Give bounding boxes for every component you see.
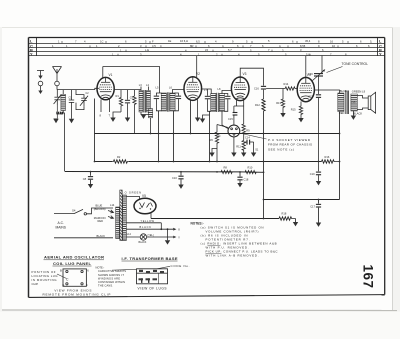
- ground below R11: [241, 153, 246, 157]
- svg-text:C8: C8: [83, 177, 87, 181]
- svg-text:V2: V2: [196, 72, 200, 76]
- wire V2 pin to chassis rail: [190, 100, 192, 133]
- V5 internals: [139, 203, 152, 210]
- svg-text:C14: C14: [245, 136, 250, 140]
- V1 internals: [97, 78, 112, 99]
- bias rail E: [151, 218, 279, 220]
- svg-text:I.F. TRANSFORMER BASE: I.F. TRANSFORMER BASE: [122, 256, 178, 261]
- wire R3 to chassis rail: [134, 108, 136, 134]
- wire tone control to bus: [321, 56, 323, 74]
- svg-text:Y: Y: [30, 52, 33, 57]
- svg-text:L10: L10: [351, 101, 356, 105]
- resistor R1: [114, 90, 141, 112]
- svg-text:THE CANS.: THE CANS.: [98, 284, 113, 288]
- label MAROON RED: [94, 216, 106, 223]
- wire R14 to C16: [266, 88, 283, 90]
- svg-text:CODE No.: CODE No.: [171, 264, 190, 268]
- svg-text:B: B: [60, 268, 62, 272]
- bus line L top: [29, 37, 385, 39]
- bus row letters right: [379, 39, 382, 57]
- HT rail B main: [129, 161, 322, 163]
- power transformer secondary windings: [123, 195, 127, 241]
- resistor R11: [242, 141, 245, 153]
- HT rail B left segment: [95, 161, 113, 163]
- wire L6 top to V2 grid: [173, 90, 185, 94]
- svg-text:C5: C5: [130, 96, 134, 100]
- wire V3 diode pins: [234, 100, 244, 112]
- tone control pot C20: [313, 70, 326, 81]
- svg-text:5,: 5,: [370, 39, 372, 43]
- arrow X: [173, 228, 176, 231]
- text position of locating lug: [32, 270, 59, 286]
- svg-text:RED: RED: [339, 111, 345, 115]
- svg-text:R6: R6: [210, 138, 214, 142]
- output transformer primary winding: [338, 93, 344, 112]
- ground below C19: [316, 181, 321, 185]
- svg-text:L1 L2: L1 L2: [57, 111, 64, 115]
- wire V1 anode to IFT1: [103, 67, 160, 94]
- power transformer core: [120, 190, 122, 241]
- resistor R10: [245, 170, 256, 173]
- svg-text:C10: C10: [172, 176, 177, 180]
- resistor R18: [279, 217, 296, 220]
- svg-text:C16: C16: [254, 87, 259, 91]
- mains wire top: [54, 213, 74, 215]
- svg-text:R14: R14: [284, 82, 289, 86]
- notes body text: [201, 226, 278, 258]
- wire V2 anode to IFT2: [201, 89, 211, 94]
- svg-text:C17: C17: [310, 204, 315, 208]
- primary tap arrows: [108, 210, 114, 213]
- capacitor C3: [69, 90, 74, 119]
- svg-text:SEE NOTE (c): SEE NOTE (c): [268, 147, 294, 151]
- wire L4 tap to rail A: [150, 112, 152, 134]
- svg-text:NOTE:-: NOTE:-: [96, 266, 105, 270]
- svg-text:(YEL): (YEL): [148, 234, 154, 237]
- IF transformer 1 shunt capacitor C7: [175, 93, 182, 111]
- heater wire Y with pilot lamp: [126, 236, 173, 238]
- svg-text:BLACK: BLACK: [353, 112, 362, 116]
- grid wire to V1: [57, 88, 97, 89]
- svg-text:L.E: L.E: [145, 48, 149, 52]
- V4 internals: [300, 78, 312, 99]
- output transformer core: [346, 91, 349, 115]
- bus tick labels: [52, 39, 372, 56]
- svg-text:AERIAL AND OSCILLATOR: AERIAL AND OSCILLATOR: [44, 255, 104, 260]
- lug circles: [66, 270, 68, 272]
- wire V1 cathode to HT rail: [94, 99, 96, 162]
- capacitor C10: [178, 172, 183, 189]
- resistor R14: [283, 87, 297, 90]
- svg-text:L.O GREEN: L.O GREEN: [121, 190, 141, 194]
- ground stub IFT2: [200, 115, 210, 123]
- svg-text:R9: R9: [246, 129, 250, 133]
- resistor R12: [262, 99, 265, 219]
- capacitor C18: [237, 172, 242, 187]
- earth terminal symbol: [37, 71, 44, 95]
- svg-text:REMOTE FROM MOUNTING CLIP: REMOTE FROM MOUNTING CLIP: [43, 293, 111, 297]
- IF transformer 2 winding L7: [211, 94, 216, 112]
- svg-text:P.U SOCKET VIEWED: P.U SOCKET VIEWED: [268, 138, 311, 142]
- svg-text:L14: L14: [110, 203, 115, 207]
- power transformer primary L14: [116, 207, 120, 239]
- svg-text:R1: R1: [116, 94, 120, 98]
- wire osc coil tops: [141, 87, 148, 91]
- label A.C. MAINS: [56, 221, 67, 230]
- svg-text:MAINS: MAINS: [56, 226, 67, 230]
- svg-text:BLUE: BLUE: [96, 203, 103, 207]
- wire L1 bottom AVC drop: [63, 111, 64, 172]
- svg-text:C21: C21: [308, 95, 313, 99]
- capacitor C1 variable: [54, 90, 62, 119]
- wire yellow to X junction: [160, 223, 162, 229]
- wire V4 anode to output transformer: [314, 90, 339, 93]
- svg-text:V3: V3: [243, 72, 247, 76]
- base inner divider: [158, 273, 160, 284]
- svg-text:L5: L5: [205, 48, 208, 52]
- ground below C3: [69, 119, 74, 123]
- svg-text:Y: Y: [379, 52, 382, 57]
- ground below R15: [298, 118, 303, 122]
- bus line 2: [29, 43, 385, 45]
- ground stub volume control: [209, 149, 217, 157]
- wire V4 anode to bus: [305, 56, 307, 77]
- coil L1 L2: [61, 90, 66, 111]
- svg-text:R18: R18: [282, 212, 287, 216]
- wire switch to transformer: [87, 208, 114, 214]
- resistor R13: [281, 89, 284, 114]
- capacitor C8: [88, 172, 93, 189]
- output transformer secondary L10: [351, 94, 357, 111]
- resistor R15: [299, 102, 302, 119]
- title underlines: [44, 260, 105, 266]
- svg-text:TONE CONTROL: TONE CONTROL: [342, 62, 369, 66]
- svg-text:16: 16: [330, 39, 333, 43]
- resistor R16: [322, 160, 340, 163]
- svg-text:R15: R15: [291, 108, 296, 112]
- junction dots: [90, 133, 341, 231]
- switch S4: [74, 209, 87, 215]
- capacitive shunt note: [96, 266, 127, 288]
- svg-text:R8: R8: [224, 166, 228, 170]
- IF transformer 2 core: [217, 93, 219, 112]
- volume control R7: [215, 125, 228, 162]
- loudspeaker: [368, 92, 375, 113]
- resistor R8: [221, 170, 232, 173]
- tube V2 envelope: [184, 77, 202, 101]
- svg-text:BLUE: BLUE: [340, 89, 347, 93]
- coil lug panel outline: [57, 269, 86, 286]
- svg-text:C19: C19: [310, 172, 315, 176]
- wire antenna to grid rail: [56, 86, 58, 90]
- svg-text:WITH LINK A-B REMOVED.: WITH LINK A-B REMOVED.: [206, 254, 259, 258]
- lug letters: [60, 268, 89, 287]
- rectifier V5 envelope: [134, 198, 156, 214]
- svg-text:COIL LUG PANEL: COIL LUG PANEL: [53, 261, 92, 266]
- svg-text:(BROWN): (BROWN): [94, 207, 106, 211]
- ground below R13: [280, 113, 285, 117]
- svg-text:(L14: (L14: [126, 233, 131, 236]
- bus label box right: [377, 38, 379, 57]
- wire osc coil bottoms: [141, 112, 148, 115]
- ground below C5: [125, 118, 130, 122]
- IF transformer 1 winding L6: [170, 93, 175, 111]
- ground below V2 cathode: [195, 100, 200, 122]
- tube V4 envelope: [297, 77, 314, 101]
- svg-text:4,: 4,: [222, 44, 224, 48]
- wire L6 bottom to rails: [173, 111, 175, 162]
- V1 pin leads: [101, 99, 110, 112]
- ground below osc coil: [141, 115, 146, 119]
- aerial trimmer loop: [76, 90, 88, 110]
- IF transformer base outline: [137, 266, 171, 284]
- wire primary bottom down: [339, 112, 341, 200]
- notes underlines: [206, 245, 222, 253]
- svg-text:V1: V1: [109, 73, 113, 77]
- IF transformer 2 shunt capacitor C11: [205, 89, 211, 111]
- svg-text:RED: RED: [98, 219, 104, 223]
- IF transformer 1 shunt capacitor C6: [154, 93, 162, 111]
- resistor R9: [242, 106, 245, 141]
- resistor R2: [112, 160, 129, 163]
- pickup socket: [228, 125, 240, 137]
- svg-text:FROM REAR OF CHASSIS: FROM REAR OF CHASSIS: [268, 143, 312, 147]
- svg-text:R11: R11: [236, 145, 241, 149]
- capacitor C14: [244, 140, 254, 145]
- IF transformer 2 winding L8: [219, 94, 224, 112]
- ground on heater wire: [165, 229, 170, 244]
- resistor R3: [133, 90, 136, 108]
- frame bottom edge: [29, 295, 385, 298]
- oscillator coil core: [144, 90, 145, 113]
- wire tone pot to C21: [318, 76, 320, 94]
- svg-text:R2: R2: [117, 155, 121, 159]
- IF transformer 2 shunt capacitor C12: [224, 94, 231, 112]
- V1 anode top lead: [102, 67, 104, 78]
- capacitor C21: [316, 94, 321, 161]
- svg-text:X: X: [178, 228, 180, 232]
- svg-text:WINDINGS ARE: WINDINGS ARE: [98, 276, 120, 280]
- pilot lamp: [140, 234, 146, 240]
- wire V3 anode top: [240, 68, 263, 85]
- wire L7 bottom to HT rail: [209, 111, 211, 161]
- screen rail C: [65, 171, 264, 174]
- svg-text:VIEW OF LUGS: VIEW OF LUGS: [138, 286, 167, 290]
- IF transformer 1 winding L5: [161, 93, 166, 111]
- svg-text:5,6: 5,6: [306, 52, 310, 56]
- ground below C1: [53, 119, 58, 123]
- capacitor C15: [233, 113, 238, 126]
- svg-text:8R: 8R: [190, 44, 193, 48]
- tube V3 envelope: [231, 77, 249, 101]
- svg-text:S4: S4: [72, 208, 76, 212]
- wire secondary to speaker: [357, 96, 368, 110]
- svg-text:6,5: 6,5: [196, 39, 200, 43]
- wire V5 cathode to bias rail: [150, 213, 152, 219]
- V2 internals: [187, 77, 199, 98]
- svg-text:16 6,H: 16 6,H: [180, 39, 188, 43]
- frame right edge: [384, 38, 386, 295]
- svg-text:S1: S1: [255, 148, 259, 152]
- bus ticks: [62, 41, 348, 56]
- wire L8 bottom to detector: [222, 111, 228, 128]
- note leader line: [112, 268, 137, 271]
- svg-text:R12: R12: [255, 103, 260, 107]
- svg-text:A.C.: A.C.: [58, 221, 64, 225]
- antenna symbol: [53, 67, 62, 86]
- svg-text:SHOWN ACROSS I.T: SHOWN ACROSS I.T: [98, 273, 124, 277]
- wire secondary to ground: [351, 111, 356, 120]
- svg-text:45,4: 45,4: [305, 39, 311, 43]
- svg-text:167: 167: [361, 265, 376, 289]
- wire HT secondary to V5 anode: [126, 197, 139, 200]
- capacitor C5: [125, 90, 130, 118]
- capacitor C19: [316, 162, 321, 182]
- capacitor C16: [261, 86, 266, 99]
- label BLUE BROWN: [94, 203, 106, 210]
- wire L5 bottom to rails: [158, 111, 160, 162]
- IF base title underline: [122, 260, 178, 262]
- svg-text:R10: R10: [248, 166, 253, 170]
- svg-text:V5: V5: [142, 194, 146, 198]
- mains wire bottom: [54, 237, 113, 239]
- pickup socket leader line: [242, 134, 267, 140]
- heater wire yellow: [126, 222, 161, 224]
- bus line 3: [29, 47, 385, 49]
- svg-text:5 7: 5 7: [228, 48, 232, 52]
- svg-text:GREEN L9: GREEN L9: [352, 90, 366, 94]
- IF transformer 1 core: [167, 92, 169, 111]
- tone control leader line: [327, 67, 343, 73]
- wire V2 anode to bus: [196, 56, 198, 77]
- locating lug leader: [57, 274, 66, 278]
- oscillator coil L3: [139, 91, 143, 113]
- svg-text:BLACK: BLACK: [140, 225, 152, 229]
- svg-text:YELLOW: YELLOW: [141, 219, 155, 223]
- svg-text:R16: R16: [325, 155, 330, 159]
- heater wire X: [126, 228, 173, 230]
- capacitor C17: [316, 200, 321, 227]
- bus label box left: [36, 38, 38, 57]
- svg-text:R13: R13: [276, 101, 281, 105]
- wire L8 top to V3 grid: [222, 91, 232, 94]
- code no leader: [157, 266, 170, 269]
- tube V1 envelope: [97, 77, 114, 99]
- svg-text:Y: Y: [178, 235, 180, 239]
- svg-text:BLACK: BLACK: [139, 241, 147, 244]
- svg-text:C18: C18: [244, 177, 249, 181]
- pickup socket note text: [268, 138, 312, 152]
- svg-text:10: 10: [332, 44, 335, 48]
- svg-text:4 5: 4 5: [152, 44, 156, 48]
- arrow Y: [173, 236, 176, 239]
- bus row letters left: [30, 39, 33, 57]
- svg-text:8,55: 8,55: [300, 44, 306, 48]
- frame left edge: [28, 38, 30, 298]
- svg-text:C15: C15: [228, 117, 233, 121]
- svg-text:G: G: [62, 283, 64, 287]
- svg-text:1C: 1C: [100, 40, 103, 44]
- svg-text:1E: 1E: [168, 39, 171, 43]
- svg-text:CLIP.: CLIP.: [32, 282, 39, 286]
- oscillator coil L4: [146, 91, 150, 113]
- ground after R18: [293, 219, 298, 227]
- ground below R1: [110, 112, 121, 122]
- chassis rail A: [95, 133, 340, 135]
- svg-text:MAROON: MAROON: [94, 216, 106, 220]
- svg-text:C20: C20: [308, 72, 313, 76]
- bus line 4: [29, 51, 385, 53]
- V3 internals: [234, 78, 246, 99]
- bus line 5 bottom: [29, 55, 385, 57]
- ground below pickup socket: [231, 137, 236, 157]
- wire C14 to ground: [251, 142, 256, 157]
- svg-text:BLACK: BLACK: [97, 234, 106, 238]
- base lugs: [139, 270, 165, 283]
- svg-text:4,: 4,: [279, 44, 281, 48]
- decoupling rail D: [264, 199, 340, 201]
- reaction coil L4A: [148, 109, 152, 118]
- svg-text:CONTAINED WITHIN: CONTAINED WITHIN: [98, 280, 125, 284]
